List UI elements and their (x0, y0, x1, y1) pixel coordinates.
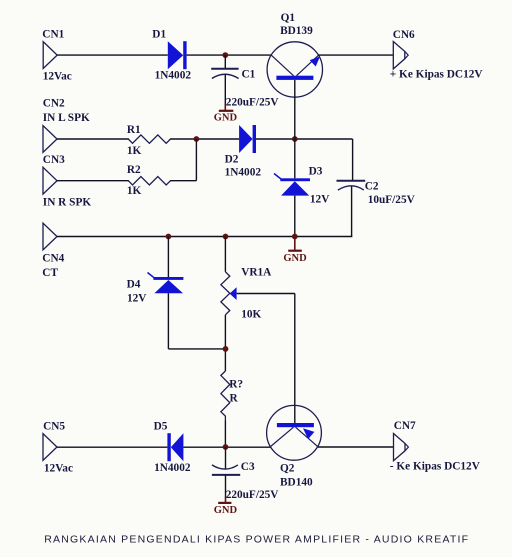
potentiometer VR1A 10K (221, 266, 272, 320)
junction dot bottom row at C3 (223, 444, 229, 450)
svg-text:GND: GND (214, 505, 238, 516)
wire C1 bottom lead (224, 75, 226, 104)
svg-text:10K: 10K (241, 308, 261, 320)
wire D2 node down to D3 (294, 139, 296, 178)
junction dot CT row at D4 (166, 234, 172, 240)
svg-text:C3: C3 (241, 461, 255, 473)
capacitor C3 220uF/25V (212, 461, 279, 501)
wire D3 to ground row (294, 196, 296, 237)
svg-text:CN1: CN1 (42, 29, 64, 41)
wire C2 bottom lead and elbow (295, 187, 353, 237)
resistor R? (221, 371, 243, 421)
wire CT row (57, 236, 295, 238)
svg-text:12Vac: 12Vac (44, 463, 73, 475)
svg-text:Q1: Q1 (281, 12, 296, 24)
svg-text:1N4002: 1N4002 (154, 462, 191, 474)
wire Q1 emitter to CN6 (318, 54, 393, 56)
svg-text:D1: D1 (152, 28, 166, 40)
svg-text:1N4002: 1N4002 (155, 70, 192, 82)
junction dot D2 node (292, 136, 298, 142)
svg-text:IN L SPK: IN L SPK (43, 112, 90, 124)
connector CN2 (43, 97, 90, 152)
zener diode D3 12V (274, 166, 330, 206)
svg-text:Q2: Q2 (280, 462, 295, 474)
svg-text:C2: C2 (365, 180, 379, 192)
wire C3 bottom lead (225, 475, 227, 497)
svg-text:1K: 1K (127, 185, 142, 197)
ground below C1 (214, 104, 238, 124)
wire C3 top lead (225, 447, 227, 469)
svg-text:CN5: CN5 (43, 420, 65, 432)
junction dot VR1A bottom (223, 346, 229, 352)
connector CN3 (43, 154, 92, 208)
svg-text:R?: R? (229, 379, 243, 391)
wire R2 up to R1 junction (170, 139, 196, 181)
wire CN3 to R2 (57, 180, 129, 182)
svg-text:R1: R1 (127, 124, 141, 136)
wire VR1A top lead (224, 237, 226, 272)
wire VR1A bottom lead (224, 315, 226, 371)
svg-text:CN4: CN4 (42, 252, 64, 264)
wire CN1 to D1 (57, 54, 168, 56)
junction dot CT row at VR1A (223, 234, 229, 240)
svg-text:VR1A: VR1A (241, 266, 272, 278)
connector CN7 (390, 420, 481, 473)
svg-text:CN6: CN6 (393, 29, 415, 41)
wire CN5 to D5 (57, 446, 167, 448)
connector CN5 (43, 420, 73, 474)
svg-text:12V: 12V (310, 194, 330, 206)
wire D4 bottom elbow to VR1A bottom (168, 293, 225, 349)
svg-text:R: R (230, 392, 239, 404)
svg-text:CN2: CN2 (43, 97, 65, 109)
connector CN4 (42, 223, 64, 279)
ground below C3 (214, 497, 238, 516)
title (44, 534, 469, 546)
svg-text:GND: GND (214, 113, 238, 124)
svg-text:10uF/25V: 10uF/25V (368, 194, 416, 206)
ground below D3 node (283, 238, 307, 264)
capacitor C2 10uF/25V (337, 180, 416, 206)
resistor R1 1K (127, 124, 171, 157)
svg-text:CN3: CN3 (43, 154, 65, 166)
svg-text:BD140: BD140 (280, 476, 313, 488)
wire Q1 base down to D2 node (294, 80, 296, 139)
svg-text:+ Ke Kipas DC12V: + Ke Kipas DC12V (390, 69, 484, 81)
svg-text:1K: 1K (127, 145, 142, 157)
svg-text:IN R SPK: IN R SPK (43, 196, 92, 208)
svg-text:12V: 12V (127, 292, 147, 304)
svg-text:D5: D5 (154, 420, 168, 432)
svg-text:D3: D3 (309, 166, 323, 178)
wire C1 top lead (224, 55, 226, 68)
wire Q2 emitter to CN7 (318, 446, 394, 448)
svg-text:C1: C1 (242, 69, 256, 81)
svg-text:220uF/25V: 220uF/25V (226, 489, 280, 501)
zener diode D4 12V (127, 273, 184, 305)
wire D1 to Q1 (187, 54, 272, 56)
wire D2 to junction and C2 elbow (256, 139, 353, 181)
svg-text:12Vac: 12Vac (43, 70, 72, 82)
diode D2 1N4002 (225, 125, 262, 179)
svg-text:220uF/25V: 220uF/25V (226, 97, 280, 109)
svg-text:RANGKAIAN PENGENDALI KIPAS POW: RANGKAIAN PENGENDALI KIPAS POWER AMPLIFI… (44, 534, 469, 546)
svg-text:R2: R2 (127, 164, 141, 176)
wire CT row to D4 (167, 237, 169, 278)
svg-text:D2: D2 (225, 154, 239, 166)
svg-text:CN7: CN7 (394, 420, 416, 432)
connector CN1 (42, 29, 71, 83)
wire CN2 to R1 (57, 138, 129, 140)
junction dot R1/R2 (194, 136, 200, 142)
wire D5 to Q2 (183, 446, 270, 448)
capacitor C1 220uF/25V (211, 69, 279, 109)
wire R? bottom lead (224, 421, 226, 448)
connector CN6 (390, 29, 484, 81)
resistor R2 1K (127, 164, 171, 197)
svg-text:GND: GND (283, 253, 307, 264)
diode D1 1N4002 (152, 28, 191, 81)
junction dot CT row at D3 (292, 234, 298, 240)
junction dot top row at C1 (222, 52, 228, 58)
diode D5 1N4002 (154, 420, 191, 474)
svg-text:- Ke Kipas DC12V: - Ke Kipas DC12V (390, 461, 481, 473)
svg-text:D4: D4 (127, 278, 141, 290)
wire R1 to D2 (170, 138, 239, 140)
svg-text:CT: CT (42, 267, 58, 279)
wire VR1A wiper to Q2 base (237, 294, 295, 424)
svg-text:1N4002: 1N4002 (225, 167, 262, 179)
transistor Q2 BD140 (267, 405, 322, 488)
svg-text:BD139: BD139 (280, 25, 313, 37)
transistor Q1 BD139 (267, 12, 322, 97)
